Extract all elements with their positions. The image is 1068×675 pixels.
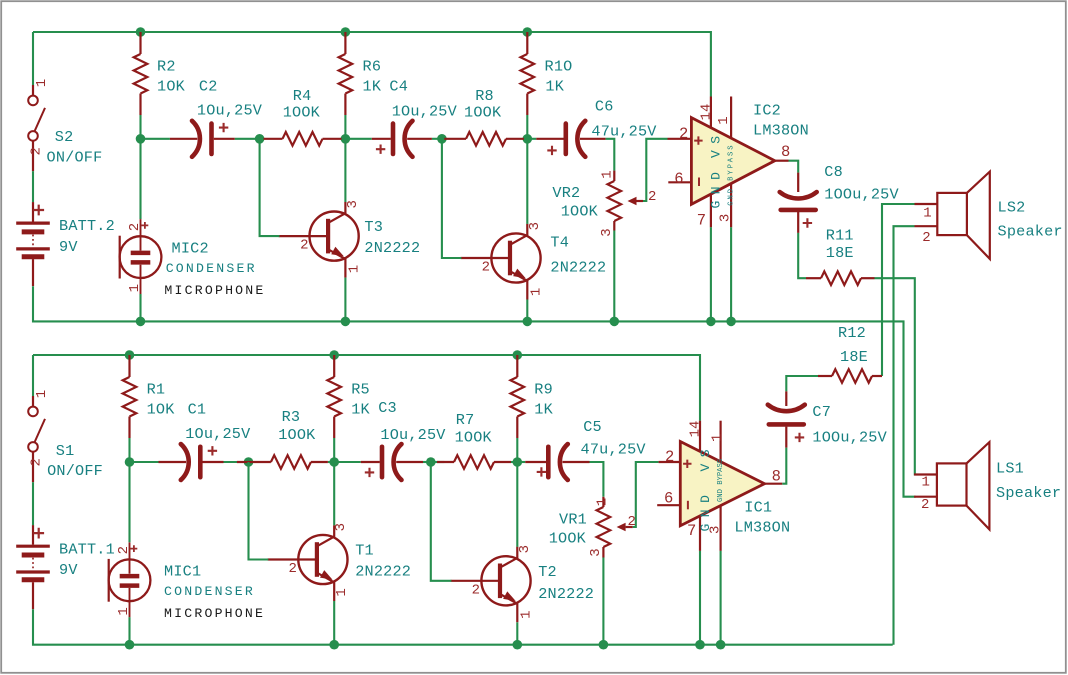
- svg-text:Speaker: Speaker: [998, 223, 1063, 241]
- junction top rail R9: [513, 350, 523, 360]
- wire T4 base from R8/C4 junction: [442, 139, 462, 258]
- wire S2 to BATT.2: [32, 171, 34, 202]
- svg-text:Speaker: Speaker: [996, 484, 1061, 502]
- svg-text:1K: 1K: [363, 77, 382, 95]
- wire T3 base from C2/R4 junction: [260, 139, 280, 236]
- wire T1 emitter to GND1: [333, 601, 335, 645]
- IC1 pin 8 output: [765, 483, 783, 485]
- IC2 plus minus markers: [694, 136, 702, 186]
- capacitor C7: [768, 391, 805, 447]
- pin numbers T1: [288, 523, 349, 597]
- svg-text:18E: 18E: [826, 244, 854, 262]
- svg-text:3: 3: [333, 523, 349, 531]
- pin numbers S1: [28, 390, 50, 467]
- svg-text:3: 3: [717, 214, 733, 222]
- IC1 pin 14 VS: [699, 421, 701, 452]
- junction GND1 IC1 pin7: [695, 640, 705, 650]
- svg-text:2: 2: [922, 230, 930, 246]
- wire channel-1 V+ top rail: [33, 355, 700, 421]
- label R3 100K: [278, 408, 316, 444]
- svg-text:LM38ON: LM38ON: [753, 122, 809, 140]
- junction top rail R1: [125, 350, 135, 360]
- svg-text:MICROPHONE: MICROPHONE: [164, 283, 265, 298]
- resistor R3: [237, 455, 328, 469]
- label R4 100K: [283, 87, 321, 122]
- wire R9 to mid rail: [516, 438, 518, 462]
- label BATT.2 9V: [59, 217, 115, 256]
- svg-text:2: 2: [28, 147, 44, 155]
- wire T4 collector to mid rail: [526, 139, 528, 224]
- svg-text:LM38ON: LM38ON: [734, 519, 790, 537]
- svg-text:3: 3: [517, 545, 533, 553]
- wire T4 emitter to GND2: [526, 300, 528, 322]
- svg-text:1Ou,25V: 1Ou,25V: [380, 426, 446, 444]
- label C3 10u,25V: [378, 399, 446, 444]
- svg-text:1: 1: [594, 498, 610, 506]
- wire mid rail to MIC1 pin2: [128, 462, 130, 542]
- svg-text:T1: T1: [355, 542, 374, 560]
- battery BATT.1 plus sign: [33, 528, 44, 539]
- label IC2 LM380N: [753, 101, 809, 139]
- wire T2 collector to mid rail: [516, 462, 518, 547]
- junction top rail R2: [136, 27, 146, 37]
- label MIC1 CONDENSER MICROPHONE: [164, 562, 265, 621]
- resistor R4: [264, 132, 342, 146]
- svg-text:1K: 1K: [351, 400, 370, 418]
- label C4 10u,25V: [389, 77, 457, 120]
- svg-text:R6: R6: [363, 58, 382, 76]
- label C5 47u,25V: [581, 418, 647, 459]
- pin numbers LS1: [921, 475, 930, 514]
- capacitor C1: [159, 444, 224, 480]
- svg-text:1OOK: 1OOK: [283, 103, 321, 121]
- pin numbers VR1: [588, 498, 636, 557]
- wire MIC1 pin1 to GND1: [128, 617, 130, 645]
- svg-text:1: 1: [599, 170, 615, 178]
- resistor R2: [134, 32, 148, 115]
- transistor T1: [268, 525, 348, 601]
- label BATT.1 9V: [59, 540, 115, 579]
- svg-text:S2: S2: [55, 128, 74, 146]
- pin numbers MIC1: [116, 546, 132, 616]
- junction mid rail MIC2/R2: [136, 134, 146, 144]
- label S2 ON/OFF: [47, 128, 103, 167]
- svg-text:CONDENSER: CONDENSER: [164, 584, 255, 599]
- wire battery-2 to switch S2: [32, 32, 34, 85]
- IC1 pin 6 input stub: [657, 504, 680, 506]
- junction mid rail R6/T3 collector: [341, 134, 351, 144]
- svg-text:GND BYPASS: GND BYPASS: [728, 144, 736, 206]
- svg-text:BATT.2: BATT.2: [59, 217, 115, 235]
- junction GND2 T4 emitter: [523, 317, 533, 327]
- battery BATT.2: [16, 202, 50, 286]
- svg-text:8: 8: [772, 468, 781, 486]
- wire S1 to BATT.1: [32, 482, 34, 525]
- junction GND2 MIC2: [136, 317, 146, 327]
- resistor R8: [444, 132, 524, 146]
- label VR1 100K: [549, 511, 587, 548]
- label R11 18E: [826, 227, 854, 263]
- resistor R12: [818, 369, 882, 383]
- wire VR1 wiper to IC1 pin2: [633, 462, 659, 527]
- svg-text:T2: T2: [538, 563, 557, 581]
- svg-text:MIC1: MIC1: [164, 562, 201, 580]
- IC2 pin 2 input: [668, 138, 692, 140]
- capacitor C4: [372, 121, 432, 157]
- svg-text:1OOK: 1OOK: [561, 203, 599, 221]
- resistor R6: [339, 32, 353, 115]
- junction GND2 IC2 pin7: [706, 317, 716, 327]
- wire T1 collector to mid rail: [333, 462, 335, 525]
- svg-text:9V: 9V: [59, 561, 78, 579]
- svg-text:6: 6: [664, 490, 673, 508]
- wire IC2 pin3 to GND2: [730, 227, 732, 321]
- label C2 10u,25V: [197, 77, 263, 119]
- wire R10 to mid rail: [526, 115, 528, 139]
- wire channel-2 mid rail: [141, 138, 537, 140]
- svg-text:2: 2: [482, 260, 490, 276]
- svg-text:MICROPHONE: MICROPHONE: [164, 606, 265, 621]
- pin numbers VR2: [599, 170, 657, 236]
- label C1 10u,25V: [185, 400, 251, 443]
- capacitor C5: [525, 444, 589, 480]
- wire LS2 pin1 to R12: [882, 204, 915, 376]
- junction top rail R6: [341, 27, 351, 37]
- resistor R1: [123, 355, 137, 438]
- IC2 pin 14 VS: [710, 97, 712, 128]
- junction mid rail R10/T4 collector/C6: [523, 134, 533, 144]
- svg-text:1OOK: 1OOK: [455, 429, 493, 447]
- wire VR2 wiper to IC2 pin2: [643, 139, 668, 201]
- label R5 1K: [351, 381, 370, 419]
- svg-text:1OOu,25V: 1OOu,25V: [812, 429, 887, 447]
- svg-text:2N2222: 2N2222: [355, 563, 411, 581]
- switch S1: [28, 396, 45, 482]
- wire R1 to mid rail: [128, 438, 130, 462]
- label LS2 Speaker: [998, 198, 1063, 240]
- transistor T2: [451, 547, 531, 623]
- svg-text:8: 8: [781, 143, 790, 161]
- op-amp IC2 LM380N: [691, 118, 774, 205]
- IC2 pin 3 bypass: [730, 184, 732, 228]
- potentiometer VR2: [608, 171, 644, 231]
- svg-text:R5: R5: [351, 381, 370, 399]
- svg-text:R9: R9: [534, 381, 553, 399]
- svg-text:1: 1: [922, 475, 930, 491]
- label S1 ON/OFF: [47, 442, 103, 480]
- svg-text:47u,25V: 47u,25V: [581, 441, 647, 459]
- svg-text:ON/OFF: ON/OFF: [47, 462, 103, 480]
- junction GND2 VR2: [610, 317, 620, 327]
- label R6 1K: [363, 58, 382, 96]
- svg-text:C1: C1: [188, 400, 207, 418]
- pin numbers IC2: [674, 104, 790, 230]
- label R9 1K: [534, 381, 553, 419]
- capacitor C8 plus sign: [803, 218, 812, 227]
- svg-text:R8: R8: [475, 87, 494, 105]
- capacitor C2: [170, 121, 235, 157]
- svg-text:R1O: R1O: [545, 58, 573, 76]
- junction mid rail C2/R4/T3 base: [255, 134, 265, 144]
- wire channel-2 V+ top rail: [33, 32, 711, 97]
- wire R6 to mid rail: [344, 115, 346, 139]
- pin numbers LS2: [922, 206, 932, 246]
- svg-text:1: 1: [346, 265, 362, 273]
- svg-text:T4: T4: [550, 234, 569, 252]
- IC2 pin 6 input stub: [668, 181, 691, 183]
- svg-text:2: 2: [116, 546, 132, 554]
- svg-text:1OOu,25V: 1OOu,25V: [824, 185, 899, 203]
- capacitor C5 plus sign: [537, 467, 546, 476]
- svg-text:T3: T3: [364, 218, 383, 236]
- label IC1 LM380N: [734, 498, 790, 536]
- capacitor C6: [536, 121, 605, 157]
- wire IC2 pin7 to GND2: [710, 227, 712, 321]
- junction GND1 T1 emitter: [329, 640, 339, 650]
- svg-text:VS: VS: [698, 443, 713, 472]
- resistor R10: [521, 32, 535, 115]
- op-amp IC1 LM380N: [680, 442, 764, 526]
- label MIC2 CONDENSER MICROPHONE: [164, 239, 265, 298]
- microphone MIC1: [109, 542, 151, 617]
- wire IC1 pin7 to GND1: [699, 551, 701, 645]
- svg-text:BATT.1: BATT.1: [59, 540, 115, 558]
- junction GND1 MIC1: [125, 640, 135, 650]
- IC1 pin names VS GND BYPASS: [698, 443, 725, 532]
- svg-text:1K: 1K: [534, 400, 553, 418]
- svg-text:1: 1: [923, 206, 931, 222]
- wire VR2 pin3 to GND2: [613, 231, 615, 322]
- svg-text:2N2222: 2N2222: [538, 585, 594, 603]
- svg-text:1Ou,25V: 1Ou,25V: [185, 425, 251, 443]
- svg-text:IC2: IC2: [753, 101, 781, 119]
- svg-text:C3: C3: [378, 399, 397, 417]
- pin numbers IC1: [664, 421, 781, 541]
- junction mid rail R8/C4/T4 base: [437, 134, 447, 144]
- pin numbers T2: [472, 545, 535, 619]
- capacitor C7 plus sign: [795, 433, 804, 442]
- battery BATT.1: [16, 525, 50, 609]
- label T1 2N2222: [355, 542, 411, 581]
- svg-text:2: 2: [921, 497, 929, 513]
- label C8 100u,25V: [824, 163, 899, 203]
- wire C6 to VR2 pin1: [606, 139, 615, 171]
- svg-text:2: 2: [679, 125, 688, 143]
- svg-text:C8: C8: [824, 163, 843, 181]
- pin numbers T3: [300, 200, 362, 273]
- junction top rail R5: [329, 350, 339, 360]
- capacitor C3 plus sign: [365, 468, 374, 477]
- wire R2 to mid rail: [139, 115, 141, 139]
- svg-text:2: 2: [127, 223, 143, 231]
- svg-text:14: 14: [699, 104, 715, 121]
- svg-text:18E: 18E: [840, 348, 868, 366]
- svg-text:S1: S1: [56, 442, 75, 460]
- svg-text:3: 3: [599, 228, 615, 236]
- label C7 100u,25V: [812, 403, 887, 447]
- svg-text:C5: C5: [583, 418, 602, 436]
- wire IC2 output to C8: [789, 161, 799, 173]
- svg-text:1K: 1K: [545, 77, 564, 95]
- pin numbers MIC2: [127, 223, 143, 293]
- battery BATT.2 plus sign: [33, 205, 44, 216]
- svg-text:3: 3: [527, 222, 543, 230]
- svg-text:CONDENSER: CONDENSER: [166, 261, 257, 276]
- svg-text:VR2: VR2: [552, 184, 580, 202]
- IC2 pin 1 bypass stub: [730, 97, 732, 139]
- wire T2 emitter to GND1: [516, 622, 518, 644]
- svg-text:GND BYPASS: GND BYPASS: [717, 459, 725, 502]
- svg-text:1: 1: [710, 434, 726, 442]
- capacitor C1 plus sign: [208, 446, 217, 455]
- MIC2 plus sign: [142, 222, 149, 229]
- switch S2: [28, 85, 45, 171]
- svg-text:R7: R7: [456, 411, 475, 429]
- svg-text:1: 1: [34, 390, 50, 398]
- wire IC1 output to C7: [782, 448, 786, 484]
- junction GND1 VR1: [599, 640, 609, 650]
- label R2 10K: [157, 58, 186, 96]
- svg-text:2N2222: 2N2222: [364, 239, 420, 257]
- svg-text:LS2: LS2: [998, 198, 1026, 216]
- svg-text:1: 1: [528, 288, 544, 296]
- svg-text:9V: 9V: [59, 238, 78, 256]
- potentiometer VR1: [597, 497, 633, 558]
- capacitor C4 plus sign: [376, 145, 385, 154]
- junction GND1 IC1 pin3: [716, 640, 726, 650]
- svg-text:1OOK: 1OOK: [278, 426, 316, 444]
- wire VR1 pin3 to GND1: [602, 558, 604, 645]
- junction mid rail R9/T2 collector/C5: [513, 457, 523, 467]
- svg-text:MIC2: MIC2: [172, 239, 209, 257]
- svg-text:3: 3: [345, 200, 361, 208]
- label R7 100K: [455, 411, 493, 446]
- IC1 pin 2 input: [659, 461, 681, 463]
- label C6 47u,25V: [591, 97, 657, 140]
- svg-text:2: 2: [288, 561, 296, 577]
- wire T2 base from R7/C3 junction: [431, 462, 452, 581]
- wire MIC2 pin1 to GND2: [139, 294, 141, 321]
- junction GND2 IC2 pin3: [726, 317, 736, 327]
- svg-text:1OK: 1OK: [157, 77, 186, 95]
- label R8 100K: [464, 87, 502, 122]
- label T2 2N2222: [538, 563, 594, 603]
- wire C5 to VR1 pin1: [590, 462, 604, 497]
- wire LS2 pin2 to GND1 rail: [894, 226, 915, 645]
- microphone MIC2: [120, 219, 162, 294]
- svg-text:7: 7: [697, 211, 706, 229]
- IC2 pin 7 GND: [710, 194, 712, 227]
- svg-text:C2: C2: [199, 77, 218, 95]
- svg-text:R3: R3: [282, 408, 301, 426]
- svg-text:R1: R1: [147, 381, 166, 399]
- svg-text:IC1: IC1: [744, 498, 772, 516]
- svg-text:1OOK: 1OOK: [549, 529, 587, 547]
- svg-text:14: 14: [687, 421, 703, 438]
- svg-text:1OK: 1OK: [147, 400, 176, 418]
- svg-text:VS: VS: [709, 129, 724, 158]
- junction GND1 T2 emitter: [513, 640, 523, 650]
- wire T3 emitter to GND2: [344, 278, 346, 322]
- pin numbers S2: [28, 79, 50, 156]
- svg-text:C6: C6: [595, 97, 614, 115]
- svg-text:ON/OFF: ON/OFF: [47, 149, 103, 167]
- svg-text:C7: C7: [812, 403, 831, 421]
- svg-text:2: 2: [300, 238, 308, 254]
- svg-text:GND: GND: [709, 166, 724, 209]
- resistor R5: [327, 355, 341, 438]
- MIC1 plus sign: [131, 545, 138, 552]
- svg-text:1: 1: [34, 79, 50, 87]
- pin numbers T4: [482, 222, 545, 296]
- wire mid rail to MIC2 pin2: [139, 139, 141, 219]
- capacitor C8: [780, 173, 817, 233]
- svg-text:R11: R11: [826, 227, 854, 245]
- svg-text:R12: R12: [838, 324, 866, 342]
- svg-text:1: 1: [127, 284, 143, 292]
- IC2 pin 8 output: [775, 160, 789, 162]
- svg-text:1Ou,25V: 1Ou,25V: [197, 102, 263, 120]
- svg-text:1: 1: [116, 607, 132, 615]
- label T3 2N2222: [364, 218, 420, 257]
- svg-text:2: 2: [628, 514, 636, 530]
- svg-text:2: 2: [28, 458, 44, 466]
- junction mid rail MIC1/R1: [125, 457, 135, 467]
- IC1 pin 1 bypass stub: [719, 421, 721, 462]
- speaker LS1: [914, 442, 989, 529]
- wire GND2 rail: [33, 286, 916, 497]
- svg-text:R4: R4: [293, 87, 312, 105]
- svg-text:1: 1: [716, 116, 732, 124]
- junction mid rail C1/R3/T1 base: [244, 457, 254, 467]
- svg-text:1: 1: [518, 610, 534, 618]
- capacitor C2 plus sign: [219, 123, 228, 132]
- svg-text:LS1: LS1: [996, 460, 1024, 478]
- svg-text:47u,25V: 47u,25V: [591, 122, 657, 140]
- junction GND2 T3 emitter: [341, 317, 351, 327]
- capacitor C3: [361, 444, 423, 480]
- wire T3 collector to mid rail: [344, 139, 346, 202]
- junction mid rail R7/C3/T2 base: [426, 457, 436, 467]
- label R10 1K: [545, 58, 573, 96]
- label LS1 Speaker: [996, 460, 1061, 503]
- IC1 pin 7 GND: [699, 516, 701, 551]
- svg-text:1: 1: [334, 588, 350, 596]
- svg-text:R2: R2: [157, 58, 176, 76]
- svg-text:3: 3: [588, 548, 604, 556]
- junction top rail R10: [523, 27, 533, 37]
- resistor R7: [437, 455, 511, 469]
- wire R11 to LS1 pin1: [875, 278, 916, 474]
- svg-text:2: 2: [665, 448, 674, 466]
- speaker LS2: [915, 172, 990, 259]
- wire IC1 pin3 to GND1: [720, 551, 722, 645]
- wire GND1 rail: [33, 609, 893, 644]
- wire battery-1 to switch S1: [32, 355, 34, 396]
- svg-text:2: 2: [648, 189, 656, 205]
- transistor T3: [279, 202, 359, 278]
- label R12 18E: [838, 324, 868, 366]
- IC2 pin names VS GND BYPASS: [709, 129, 736, 208]
- svg-text:1OOK: 1OOK: [464, 103, 502, 121]
- wire R5 to mid rail: [333, 438, 335, 462]
- transistor T4: [461, 224, 541, 300]
- wire T1 base from C1/R3 junction: [249, 462, 269, 560]
- svg-text:2N2222: 2N2222: [550, 259, 606, 277]
- capacitor C6 plus sign: [547, 146, 556, 155]
- svg-text:GND: GND: [698, 489, 713, 532]
- svg-text:7: 7: [687, 522, 696, 540]
